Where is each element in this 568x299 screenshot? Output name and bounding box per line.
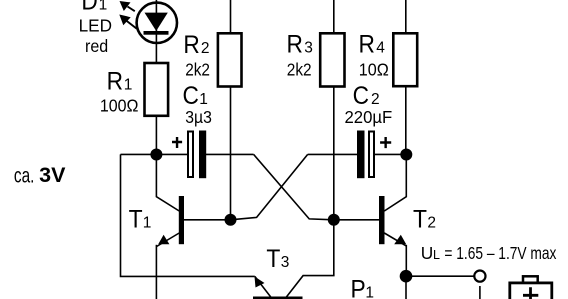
svg-text:ca.: ca. xyxy=(14,164,35,188)
svg-text:1: 1 xyxy=(124,77,133,94)
svg-text:U: U xyxy=(421,243,433,263)
svg-text:4: 4 xyxy=(376,39,385,56)
svg-text:1: 1 xyxy=(199,91,208,108)
svg-text:T: T xyxy=(129,206,143,234)
svg-text:2: 2 xyxy=(201,40,210,57)
svg-text:2k2: 2k2 xyxy=(287,60,312,80)
svg-text:3V: 3V xyxy=(39,163,66,187)
svg-text:100Ω: 100Ω xyxy=(100,96,139,116)
svg-text:1: 1 xyxy=(143,215,152,232)
svg-text:D: D xyxy=(81,0,97,16)
svg-text:R: R xyxy=(359,30,375,58)
svg-text:2k2: 2k2 xyxy=(185,60,210,80)
svg-text:red: red xyxy=(85,36,108,56)
svg-text:R: R xyxy=(287,30,303,58)
svg-text:T: T xyxy=(413,206,427,234)
svg-text:3: 3 xyxy=(281,254,290,271)
svg-text:220µF: 220µF xyxy=(345,107,393,127)
svg-text:R: R xyxy=(107,68,123,96)
svg-text:= 1.65 – 1.7V max: = 1.65 – 1.7V max xyxy=(444,243,556,263)
svg-text:3µ3: 3µ3 xyxy=(185,107,212,127)
svg-text:LED: LED xyxy=(79,15,112,35)
svg-text:P: P xyxy=(351,276,366,299)
svg-text:C: C xyxy=(353,82,369,110)
svg-text:1: 1 xyxy=(99,0,108,14)
svg-text:2: 2 xyxy=(427,215,436,232)
svg-text:3: 3 xyxy=(304,39,313,56)
svg-text:L: L xyxy=(433,248,440,262)
svg-text:2: 2 xyxy=(371,91,380,108)
svg-text:R: R xyxy=(183,31,199,59)
svg-text:1: 1 xyxy=(365,285,374,299)
svg-text:T: T xyxy=(266,245,280,273)
svg-text:10Ω: 10Ω xyxy=(359,60,389,80)
